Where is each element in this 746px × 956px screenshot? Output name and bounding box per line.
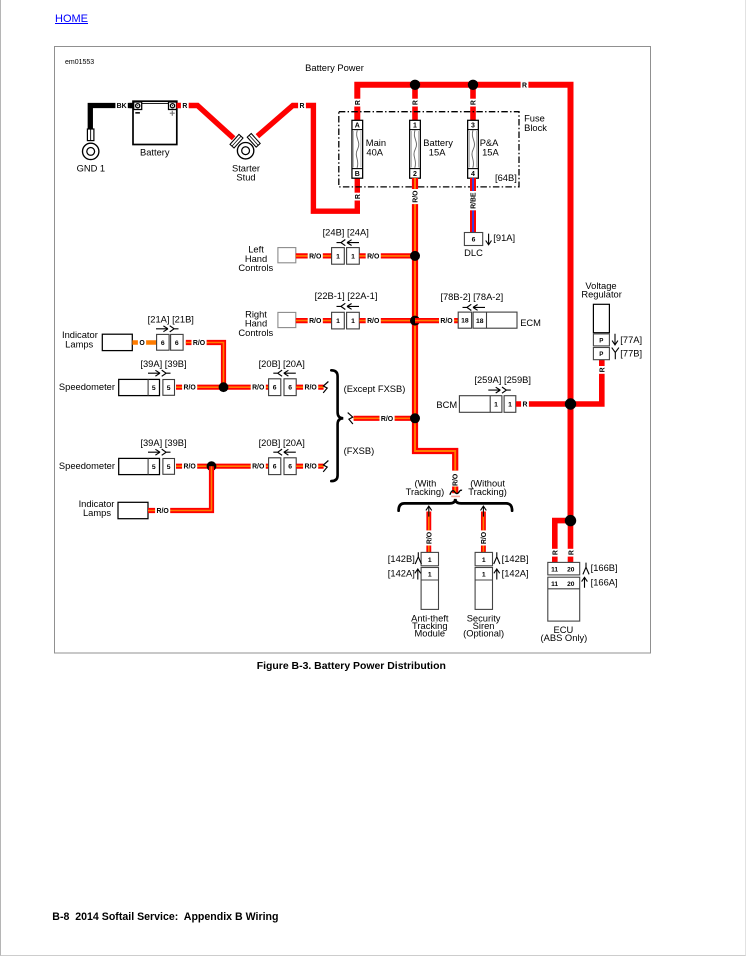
label R/O sp2a xyxy=(182,462,197,471)
mating arrows 24B-24A xyxy=(337,240,360,246)
svg-text:R: R xyxy=(355,194,362,199)
socket symbol fork 77B xyxy=(612,348,619,360)
wire battery positive R to starter stud xyxy=(177,106,234,139)
wire R/O to ECM xyxy=(415,318,458,323)
starter stud ring terminal xyxy=(237,143,253,159)
label R/O rhc2 xyxy=(366,316,381,325)
pin connector [20B] cavity 6 r1 xyxy=(269,379,281,396)
ground ring terminal GND 1 xyxy=(83,143,99,159)
svg-text:20: 20 xyxy=(567,581,575,588)
svg-text:R/O: R/O xyxy=(183,464,196,471)
half-connector symbol brace wire half-connector xyxy=(348,413,353,424)
mating arrows 39A-39B r2 xyxy=(148,449,171,455)
fuse P&amp;A 15A F3 xyxy=(468,120,479,178)
svg-text:[64B]: [64B] xyxy=(495,173,517,183)
svg-text:Tracking): Tracking) xyxy=(468,487,507,497)
wire R/O speedo1 tail xyxy=(296,385,323,390)
wire R bus and right trunk xyxy=(357,85,570,521)
svg-text:R: R xyxy=(522,82,527,89)
svg-text:40A: 40A xyxy=(366,148,383,158)
svg-text:[20B] [20A]: [20B] [20A] xyxy=(259,359,305,369)
pin connector [20B] cavity 6 r2 xyxy=(269,458,281,475)
label R/O trunk top xyxy=(411,189,420,204)
mating arrows 20B-20A r2 xyxy=(273,449,296,455)
svg-text:5: 5 xyxy=(167,385,171,392)
svg-text:P: P xyxy=(599,351,603,358)
pin connector [21A] cavity 6 xyxy=(157,334,170,350)
svg-text:1: 1 xyxy=(428,557,432,564)
svg-text:R/O: R/O xyxy=(309,318,322,325)
voltage regulator body xyxy=(593,304,609,332)
ECU module (ABS) xyxy=(548,577,580,621)
svg-text:B-8 2014 Softail Service: Ap: B-8 2014 Softail Service: Appendix B Wir… xyxy=(52,911,278,923)
label R/O track l xyxy=(424,530,433,545)
svg-text:3: 3 xyxy=(471,123,475,130)
svg-text:1: 1 xyxy=(336,318,340,325)
wire R/O RHC right to trunk xyxy=(359,318,415,323)
pin connector [78B-2] cavity 18 xyxy=(458,312,471,328)
brace grouping FXSB rows xyxy=(331,370,343,481)
starter stud crimp right xyxy=(247,134,260,148)
svg-text:Indicator: Indicator xyxy=(62,330,98,340)
svg-text:R: R xyxy=(413,100,420,105)
svg-text:6: 6 xyxy=(288,385,292,392)
svg-text:1: 1 xyxy=(494,402,498,409)
pin connector [259B] cavity 1 xyxy=(504,396,516,413)
label R/O sp2c xyxy=(303,462,318,471)
svg-text:R/O: R/O xyxy=(367,318,380,325)
svg-text:[39A] [39B]: [39A] [39B] xyxy=(140,438,186,448)
ECU connector [166B] xyxy=(548,562,580,575)
brace tracking options xyxy=(399,499,512,511)
svg-text:R: R xyxy=(300,103,305,110)
svg-text:[39A] [39B]: [39A] [39B] xyxy=(140,359,186,369)
fuse block border [64B] xyxy=(339,112,519,187)
pin connector [22B-1] cavity 1 xyxy=(332,312,345,329)
svg-text:1: 1 xyxy=(336,253,340,260)
svg-text:[142B]: [142B] xyxy=(388,554,415,564)
junction bus junction fuse2 xyxy=(410,80,420,90)
arrow arrow 142A l xyxy=(415,569,421,580)
svg-text:GND 1: GND 1 xyxy=(77,164,106,174)
BCM housing with connector [259A] cavity 1 xyxy=(459,396,502,413)
svg-text:B: B xyxy=(355,171,360,178)
arrow siren arrow xyxy=(481,506,487,516)
svg-text:R: R xyxy=(355,100,362,105)
svg-text:[91A]: [91A] xyxy=(493,233,515,243)
wire R/O to security siren xyxy=(481,512,486,553)
pin connector [24B] cavity 1 xyxy=(332,248,345,265)
speedometer 1 housing xyxy=(119,379,160,395)
svg-text:(FXSB): (FXSB) xyxy=(344,446,375,456)
anti-theft tracking module xyxy=(421,568,438,610)
svg-text:R/O: R/O xyxy=(183,385,196,392)
svg-text:20: 20 xyxy=(567,567,575,574)
svg-text:6: 6 xyxy=(472,237,476,244)
svg-text:11: 11 xyxy=(551,567,558,574)
label R fuse3 top xyxy=(469,99,478,107)
svg-text:11: 11 xyxy=(551,581,558,588)
junction speedo2 junction xyxy=(207,461,217,471)
wire R trunk to ECU pin 20 xyxy=(568,521,574,564)
svg-text:R/O: R/O xyxy=(413,190,420,203)
svg-text:ECM: ECM xyxy=(520,318,541,328)
label O ind1 xyxy=(138,338,146,347)
svg-text:R/O: R/O xyxy=(426,531,433,544)
arrow DLC mating arrow xyxy=(486,234,492,245)
label R/O sp1a xyxy=(182,383,197,392)
label R/O track r xyxy=(479,530,488,545)
label R main fuse bottom xyxy=(353,193,362,201)
svg-text:4: 4 xyxy=(471,171,475,178)
svg-text:R/O: R/O xyxy=(252,385,265,392)
svg-text:2: 2 xyxy=(413,171,417,178)
svg-text:Controls: Controls xyxy=(238,263,273,273)
pin connector [39B] cavity 5 r2 xyxy=(163,459,175,475)
indicator lamps 1 box xyxy=(102,334,132,350)
svg-text:Battery: Battery xyxy=(140,147,170,157)
svg-text:[77B]: [77B] xyxy=(620,349,642,359)
indicator lamps 2 box xyxy=(118,502,148,518)
svg-text:6: 6 xyxy=(273,385,277,392)
label R/O ind1 xyxy=(192,338,207,347)
wire R fuse2 top stub xyxy=(412,85,418,121)
wire R/O speedo2 to 20B xyxy=(176,464,269,469)
pin connector [24A] cavity 1 xyxy=(347,248,360,265)
svg-text:Block: Block xyxy=(524,123,547,133)
wire black battery negative BK xyxy=(90,106,130,130)
voltage regulator pin P [77B] xyxy=(593,348,609,360)
label R bus xyxy=(521,80,529,89)
half-connector symbol row2 end xyxy=(323,461,328,472)
label BK xyxy=(115,101,127,110)
starter stud crimp left xyxy=(230,134,243,148)
svg-text:R/O: R/O xyxy=(453,473,460,486)
svg-text:Tracking): Tracking) xyxy=(406,487,445,497)
speedometer 2 housing xyxy=(119,458,160,474)
svg-text:BCM: BCM xyxy=(436,400,457,410)
wire R/O stub at tracking symbol xyxy=(452,487,458,494)
svg-text:[166B]: [166B] xyxy=(591,563,618,573)
wire R/BE wire to DLC xyxy=(470,178,476,233)
svg-text:15A: 15A xyxy=(482,148,499,158)
wire R/O LHC right to trunk xyxy=(359,253,415,258)
junction RHC junction xyxy=(410,316,420,326)
svg-text:O: O xyxy=(139,340,145,347)
svg-text:R: R xyxy=(552,550,559,555)
svg-text:1: 1 xyxy=(508,402,512,409)
junction speedo1 junction xyxy=(219,382,229,392)
label R/O ind2 xyxy=(155,506,170,515)
svg-text:15A: 15A xyxy=(429,148,446,158)
wire R/O LHC left xyxy=(296,253,332,258)
wire R/O to anti-theft module xyxy=(426,512,431,553)
label R fuse2 top xyxy=(411,99,420,107)
label R batt xyxy=(181,101,189,110)
svg-text:R/BE: R/BE xyxy=(471,192,478,209)
label R/O lhc2 xyxy=(366,252,381,261)
svg-text:P: P xyxy=(599,337,603,344)
security siren module xyxy=(475,568,492,610)
svg-text:1: 1 xyxy=(428,572,432,579)
svg-text:1: 1 xyxy=(482,572,486,579)
pin connector [20A] cavity 6 r2 xyxy=(284,458,296,475)
svg-text:Lamps: Lamps xyxy=(65,340,93,350)
svg-text:[20B] [20A]: [20B] [20A] xyxy=(259,438,305,448)
svg-text:Main: Main xyxy=(366,138,386,148)
junction LHC junction xyxy=(410,251,420,261)
wire R/O indicator1 to speedo junction xyxy=(186,343,224,388)
svg-text:1: 1 xyxy=(351,253,355,260)
svg-text:[142A]: [142A] xyxy=(388,568,415,578)
junction bus junction fuse3 xyxy=(468,80,478,90)
security siren connector [142B] xyxy=(475,552,492,565)
Right Hand Controls housing xyxy=(278,312,296,327)
mating arrows 22B1-22A1 xyxy=(337,303,360,309)
wire R/O speedo1 to 20B xyxy=(176,385,269,390)
arrow anti-theft arrow xyxy=(426,506,432,516)
svg-text:R: R xyxy=(471,100,478,105)
svg-text:[21A] [21B]: [21A] [21B] xyxy=(148,314,194,324)
svg-text:[142A]: [142A] xyxy=(502,568,529,578)
svg-text:(Optional): (Optional) xyxy=(463,629,504,639)
socket symbol fork 142B xyxy=(415,552,421,564)
junction ECU junction xyxy=(565,515,576,526)
svg-text:6: 6 xyxy=(288,464,292,471)
diagram frame xyxy=(55,47,651,654)
pin connector [39B] cavity 5 r1 xyxy=(163,380,175,396)
wire R/O brace to trunk xyxy=(354,416,415,421)
svg-text:R/O: R/O xyxy=(440,318,453,325)
pin connector [22A-1] cavity 1 xyxy=(347,312,360,329)
label R/BE xyxy=(469,191,478,210)
wire R/O trunk from battery fuse xyxy=(415,178,455,471)
fuse Main 40A F1 xyxy=(352,120,363,178)
svg-text:P&A: P&A xyxy=(480,138,499,148)
svg-text:5: 5 xyxy=(152,464,156,471)
wire starter stud R feed to main fuse xyxy=(257,106,357,212)
svg-text:[22B-1] [22A-1]: [22B-1] [22A-1] xyxy=(315,291,378,301)
svg-text:R/O: R/O xyxy=(381,416,394,423)
svg-text:R/O: R/O xyxy=(309,253,322,260)
svg-text:5: 5 xyxy=(167,464,171,471)
junction brace junction xyxy=(410,413,420,423)
wire R/O indicator2 to speedo2 junction xyxy=(148,466,212,510)
svg-text:[24B] [24A]: [24B] [24A] xyxy=(323,228,369,238)
svg-text:R/O: R/O xyxy=(367,253,380,260)
voltage regulator pin P [77A] xyxy=(593,334,609,346)
svg-text:18: 18 xyxy=(476,318,484,325)
arrow arrow 166A xyxy=(582,577,588,588)
svg-text:R/O: R/O xyxy=(481,531,488,544)
svg-text:R/O: R/O xyxy=(304,464,317,471)
wire R/O speedo2 tail xyxy=(296,464,323,469)
wire R fuse3 top stub xyxy=(470,85,476,121)
svg-text:R: R xyxy=(568,550,575,555)
pin connector [21B] cavity 6 xyxy=(171,334,184,350)
wire R/O RHC left xyxy=(296,318,332,323)
DLC connector [91A] xyxy=(464,233,482,246)
ECM housing with connector [78A-2] cavity 18 xyxy=(473,312,517,328)
arrow arrow 142A siren xyxy=(494,569,500,580)
socket symbol fork 166B xyxy=(583,563,589,575)
Left Hand Controls housing xyxy=(278,248,296,263)
svg-text:Speedometer: Speedometer xyxy=(59,382,115,392)
wire R BCM to trunk and voltage regulator xyxy=(516,360,602,404)
svg-text:1: 1 xyxy=(413,123,417,130)
svg-text:Lamps: Lamps xyxy=(83,508,111,518)
svg-text:6: 6 xyxy=(273,464,277,471)
fuse Battery 15A F2 xyxy=(410,120,421,178)
wire R trunk to ECU pin 11 xyxy=(555,521,571,564)
junction BCM junction xyxy=(565,398,576,409)
svg-text:Battery Power: Battery Power xyxy=(305,63,364,73)
wire O wire indicator 1 xyxy=(132,340,156,345)
svg-text:R/O: R/O xyxy=(156,508,169,515)
svg-text:[166A]: [166A] xyxy=(591,577,618,587)
mating arrows 20B-20A r1 xyxy=(273,370,296,376)
label R/O sp1b xyxy=(251,383,266,392)
svg-text:1: 1 xyxy=(482,557,486,564)
label R vr stub xyxy=(597,366,606,374)
label R/O sp2b xyxy=(251,462,266,471)
socket symbol fork 142B siren xyxy=(494,552,500,564)
svg-text:R/O: R/O xyxy=(304,385,317,392)
svg-text:R: R xyxy=(182,103,187,110)
mating symbol with/without tracking xyxy=(450,490,462,495)
svg-text:R/O: R/O xyxy=(252,464,265,471)
svg-text:Controls: Controls xyxy=(238,328,273,338)
label R/O sp1c xyxy=(303,383,318,392)
svg-text:[78B-2] [78A-2]: [78B-2] [78A-2] xyxy=(440,292,503,302)
svg-text:Stud: Stud xyxy=(236,172,255,182)
svg-text:[142B]: [142B] xyxy=(502,554,529,564)
svg-text:6: 6 xyxy=(161,340,165,347)
svg-text:5: 5 xyxy=(152,385,156,392)
anti-theft connector [142B] xyxy=(421,552,438,565)
svg-text:Battery: Battery xyxy=(423,138,453,148)
mating arrows 21A-21B xyxy=(156,326,179,332)
svg-text:6: 6 xyxy=(175,340,179,347)
label R bcm xyxy=(521,400,529,409)
svg-text:1: 1 xyxy=(351,318,355,325)
label R ecu l xyxy=(550,549,559,557)
svg-text:em01553: em01553 xyxy=(65,59,94,66)
battery ground crimp terminal xyxy=(87,129,94,141)
arrow arrow 77A xyxy=(612,334,618,345)
battery xyxy=(130,101,177,144)
label R stud xyxy=(298,101,306,110)
svg-text:18: 18 xyxy=(461,318,469,325)
svg-text:[77A]: [77A] xyxy=(620,335,642,345)
mating arrows 259A-259B xyxy=(488,387,511,393)
label R/O brace xyxy=(380,414,395,423)
label R/O lhc1 xyxy=(308,252,323,261)
svg-text:Regulator: Regulator xyxy=(581,290,622,300)
half-connector symbol row1 end xyxy=(323,382,328,393)
label R main fuse top xyxy=(353,99,362,107)
svg-text:(ABS Only): (ABS Only) xyxy=(541,633,588,643)
svg-text:Speedometer: Speedometer xyxy=(59,461,115,471)
label R/O rhc1 xyxy=(308,316,323,325)
svg-text:[259A] [259B]: [259A] [259B] xyxy=(474,375,531,385)
svg-text:Figure B-3. Battery Power Dist: Figure B-3. Battery Power Distribution xyxy=(257,661,446,672)
svg-text:A: A xyxy=(355,123,360,130)
svg-text:BK: BK xyxy=(117,103,127,110)
svg-text:R: R xyxy=(523,402,528,409)
label R ecu r xyxy=(567,549,576,557)
svg-text:R: R xyxy=(599,367,606,372)
svg-text:(Except FXSB): (Except FXSB) xyxy=(344,384,406,394)
svg-text:Module: Module xyxy=(414,629,445,639)
svg-text:R/O: R/O xyxy=(193,340,206,347)
label R/O track trunk xyxy=(451,472,460,487)
label R/O ecm xyxy=(439,316,454,325)
svg-text:DLC: DLC xyxy=(464,248,483,258)
pin connector [20A] cavity 6 r1 xyxy=(284,379,296,396)
mating arrows 78B2-78A2 xyxy=(463,304,486,310)
mating arrows 39A-39B r1 xyxy=(148,370,171,376)
